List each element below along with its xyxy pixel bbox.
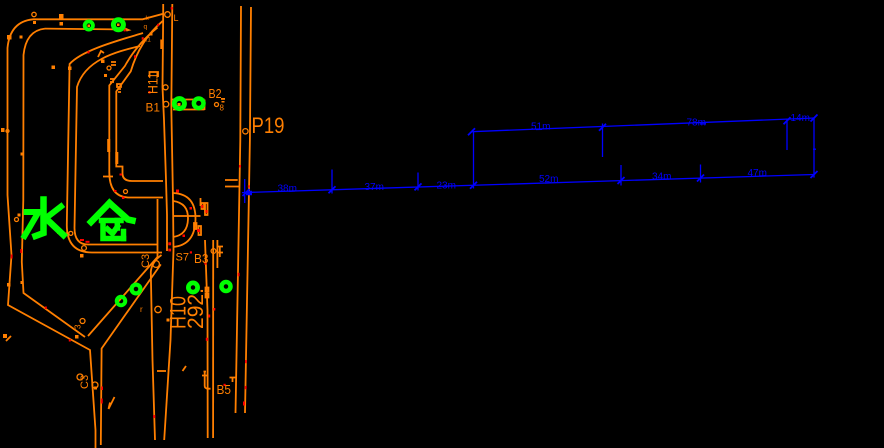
node square markers on walls <box>7 35 12 40</box>
wire top outer horizontal drift <box>33 4 163 19</box>
wire S-curve right line with jog <box>116 21 163 181</box>
wire outer west wall of sump loop <box>8 19 96 448</box>
svg-text:x1: x1 <box>144 37 151 44</box>
wire equal marks upper S <box>111 62 116 65</box>
wire bracket at B3 <box>217 247 224 258</box>
svg-text:51m: 51m <box>531 121 550 132</box>
node borehole donut top-left small <box>85 21 93 29</box>
wire B2 spur lower <box>173 100 205 111</box>
svg-text:292.: 292. <box>183 288 208 329</box>
wire inner loop inner line <box>75 46 158 245</box>
node hanzi cang warehouse <box>91 203 110 222</box>
svg-text:L: L <box>174 13 179 23</box>
wire lower dimension line <box>242 175 814 193</box>
wire door rects on B5 corridor <box>206 288 209 298</box>
svg-text:q: q <box>144 24 148 31</box>
wire tick on east pair <box>230 378 237 383</box>
svg-text:P19: P19 <box>252 113 285 138</box>
wire turning loop inner arc <box>173 201 188 237</box>
wire turning loop outer arc <box>173 193 196 247</box>
wire upper dimension line <box>472 118 815 132</box>
wire inner west wall of sump loop <box>22 29 85 337</box>
node borehole donut diagonal lower <box>117 297 126 306</box>
node dim slashes upper <box>468 115 818 136</box>
wire lower dim left extension <box>244 179 246 203</box>
wire S-curve left line <box>109 28 163 198</box>
svg-text:47m: 47m <box>748 168 767 179</box>
wire small slash near left bottom <box>6 336 11 341</box>
wire top inner horizontal drift <box>45 28 128 31</box>
svg-text:38m: 38m <box>278 184 297 195</box>
wire stray survey arrow <box>98 51 104 57</box>
node borehole donut diagonal upper <box>132 285 141 294</box>
svg-text:3: 3 <box>74 324 83 329</box>
node red chainage marks <box>171 7 173 10</box>
wire west stubs of east corridor <box>225 180 239 187</box>
svg-text:B3: B3 <box>194 251 209 266</box>
svg-text:S7: S7 <box>176 252 190 264</box>
node borehole donut near 292 <box>188 283 197 292</box>
svg-text:C3: C3 <box>79 375 91 389</box>
svg-text:B1: B1 <box>146 101 161 115</box>
wire short wall right of loop <box>216 240 218 268</box>
node dim slashes lower <box>243 171 818 196</box>
wire B5 bracket <box>202 372 211 389</box>
node circle markers <box>6 12 248 388</box>
wire notch on corridor left <box>160 40 162 50</box>
svg-text:34m: 34m <box>652 171 671 182</box>
node dim left arrow blob <box>246 191 252 196</box>
wire dim division x624 <box>620 165 622 186</box>
wire tick across south corridor <box>157 370 166 372</box>
wire thick nubs on S pair <box>109 139 117 164</box>
wire upper division x605 <box>602 124 604 158</box>
node borehole donut B1 east <box>194 99 204 109</box>
wire dim division x419 <box>417 173 419 191</box>
wire connector to pump niche <box>174 198 201 216</box>
wire B5 corridor right line <box>212 240 214 438</box>
wire dim division x705 <box>700 165 702 183</box>
svg-text:14m: 14m <box>791 113 810 124</box>
wire long east corridor right line <box>245 7 251 413</box>
wire dim division x473 tall <box>473 132 475 189</box>
svg-text:C3: C3 <box>140 254 152 268</box>
wire arrow bottom corridor <box>109 397 115 409</box>
wire B5 corridor left line <box>205 240 208 438</box>
wire staple mark <box>150 72 159 77</box>
wire chamber east wall into SW diagonal <box>88 199 158 336</box>
wire main corridor left line lower <box>151 255 162 440</box>
wire tick at S bend <box>103 176 113 178</box>
svg-text:8: 8 <box>220 104 225 113</box>
node arrowhead of inner drift <box>125 28 132 32</box>
wire B2 spur upper <box>171 99 204 101</box>
node dots inside donuts <box>88 25 91 28</box>
wire slash mark mid corridor <box>183 366 187 371</box>
svg-text:B2: B2 <box>209 86 222 101</box>
wire ladder marks S corridor <box>110 79 121 92</box>
svg-text:78m: 78m <box>687 117 706 128</box>
node dim stub dots <box>813 148 816 150</box>
svg-text:37m: 37m <box>365 182 384 193</box>
wire main corridor right line <box>164 4 173 440</box>
svg-text:r: r <box>140 305 143 314</box>
svg-text:23m: 23m <box>437 181 456 192</box>
node hanzi shui water <box>36 200 44 237</box>
svg-text:52m: 52m <box>539 174 558 185</box>
svg-text:B5: B5 <box>217 382 232 397</box>
wire long east corridor left line <box>236 6 242 413</box>
wire right end extension <box>813 118 815 178</box>
wire inner loop outer line <box>67 33 162 253</box>
wire door rects right of loop <box>194 203 208 235</box>
svg-text:H11: H11 <box>145 72 161 94</box>
wire upper division x792 <box>786 119 788 150</box>
wire dim division x332 <box>331 170 333 194</box>
node borehole donut B1 west <box>174 99 184 109</box>
wire main corridor left line upper <box>163 14 168 251</box>
node borehole donut east lone <box>222 282 231 291</box>
node borehole donut top-left large <box>113 20 123 30</box>
wire SW diagonal right line <box>101 264 161 445</box>
